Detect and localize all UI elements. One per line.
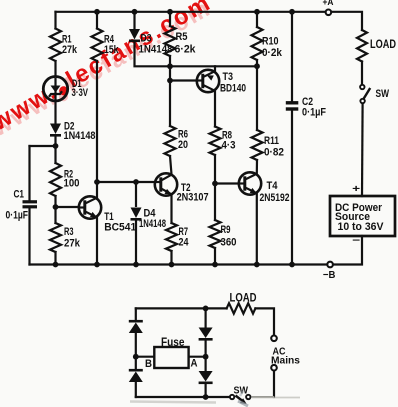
node B junction <box>133 354 139 360</box>
node emitter rail R5 <box>167 63 173 69</box>
node T2 base branch <box>94 179 100 185</box>
terminal AC top <box>271 336 277 342</box>
node bridge top <box>203 306 209 312</box>
resistor LOAD2 <box>227 303 256 313</box>
wire T1 base lead <box>56 206 79 208</box>
resistor R8 <box>210 127 221 156</box>
svg-text:0·82: 0·82 <box>264 147 284 159</box>
svg-text:C1: C1 <box>14 189 25 201</box>
svg-text:100: 100 <box>64 178 80 190</box>
node T4 rail <box>254 262 260 268</box>
svg-text:Fuse: Fuse <box>161 335 185 349</box>
node R9 rail <box>212 262 218 268</box>
wire D6 to rail <box>135 382 137 397</box>
wire R9 bottom <box>214 248 216 265</box>
wire T1 emitter <box>96 217 98 264</box>
svg-text:27k: 27k <box>64 238 81 250</box>
wire +A to load column <box>332 12 362 30</box>
svg-text:R10: R10 <box>262 36 279 48</box>
svg-text:6·2k: 6·2k <box>175 43 197 55</box>
wire D5 to node B <box>135 333 137 370</box>
diode D4 <box>135 182 137 207</box>
wire T3 collector to R8 <box>214 91 216 127</box>
wire T3 base lead <box>170 79 197 81</box>
node C2 top <box>289 9 295 15</box>
svg-text:LOAD: LOAD <box>370 37 396 51</box>
capacitor C2 <box>286 101 299 104</box>
transistor T3 <box>197 70 219 92</box>
wire T4 base lead <box>215 182 239 184</box>
transistor T1 <box>79 196 101 218</box>
transistor T4 <box>239 172 261 194</box>
terminal AC bottom <box>271 365 277 371</box>
svg-text:A: A <box>191 358 198 370</box>
resistor R1 <box>50 29 61 62</box>
resistor R10 <box>252 27 263 60</box>
svg-text:24: 24 <box>179 237 190 249</box>
svg-text:27k: 27k <box>62 44 78 56</box>
svg-text:−: − <box>352 236 360 247</box>
wire R4 top <box>96 12 98 29</box>
wire R1 top <box>54 12 56 29</box>
wire fuse to node A <box>189 356 206 358</box>
node R3 rail <box>53 262 59 268</box>
wire LOAD2 to AC top <box>255 308 274 334</box>
wire junction to C1 rail <box>30 145 56 147</box>
wire R10 top <box>256 12 258 27</box>
svg-text:1N4148: 1N4148 <box>139 218 166 230</box>
wire R11 to T4 collector <box>256 160 258 174</box>
node D2-R2 junction <box>53 143 59 149</box>
wire C1 column <box>28 146 30 200</box>
wire R6 to T2 collector <box>170 156 172 174</box>
switch SW <box>360 85 364 89</box>
fuse F1 <box>154 347 188 368</box>
zener diode D1 <box>43 77 67 101</box>
wire D3 top <box>133 12 135 29</box>
svg-text:0·1µF: 0·1µF <box>302 107 326 119</box>
wire R7 bottom <box>170 251 172 265</box>
wire T2 emitter to R7 <box>170 194 172 223</box>
diode bridge D5 <box>129 323 143 334</box>
wire R4 to T1 collector <box>96 61 98 199</box>
DC power source box <box>330 196 395 236</box>
terminal +A <box>326 10 332 16</box>
svg-text:15k: 15k <box>104 44 119 56</box>
node R5 top <box>167 9 173 15</box>
wire R5-R6 <box>169 56 171 126</box>
node emitter rail R10 <box>254 63 260 69</box>
svg-text:3·3V: 3·3V <box>72 87 89 99</box>
wire D1-D2 <box>54 101 56 124</box>
node R2-R3 junction <box>53 204 59 210</box>
resistor R6 <box>165 126 176 156</box>
svg-text:BC541: BC541 <box>104 222 136 234</box>
node R7 rail <box>169 262 175 268</box>
diode bridge D7 <box>199 328 213 339</box>
watermark www.elecfans.com <box>0 0 220 145</box>
node R4 top <box>94 9 100 15</box>
svg-text:+: + <box>352 184 360 195</box>
svg-text:−B: −B <box>323 269 336 281</box>
svg-text:R9: R9 <box>221 224 231 236</box>
wire D2-junction <box>54 135 56 163</box>
svg-text:R5: R5 <box>176 31 188 43</box>
node D4 rail <box>133 262 139 268</box>
resistor R2 <box>50 163 61 196</box>
wire SW to box <box>361 104 364 196</box>
wire R10 to R11 <box>256 60 258 130</box>
svg-text:1N4148: 1N4148 <box>64 130 96 142</box>
wire top rail <box>56 11 325 13</box>
svg-text:SW: SW <box>376 88 390 100</box>
wire D3 bottom to emitter rail <box>135 41 258 67</box>
svg-text:R11: R11 <box>264 135 279 147</box>
node D3 top <box>132 9 138 15</box>
wire C2 column top <box>291 12 293 101</box>
wire R3 bottom <box>54 252 56 265</box>
node T3 base branch <box>167 78 173 84</box>
diode bridge D8 <box>199 371 213 382</box>
svg-text:R3: R3 <box>64 226 74 238</box>
node D4 top <box>133 179 139 185</box>
wire rail to SW2 <box>136 396 229 398</box>
wire R5 top <box>169 12 171 26</box>
wire D8 to rail <box>205 383 207 397</box>
svg-text:LOAD: LOAD <box>230 292 257 304</box>
diode bridge D6 <box>129 372 143 383</box>
diode D2 <box>50 124 61 135</box>
resistor R5 <box>165 26 176 56</box>
wire D4 bottom <box>135 219 137 264</box>
resistor R3 <box>50 223 61 252</box>
wire base rail to T2 <box>97 181 155 183</box>
wire AC bottom to rail <box>273 371 275 397</box>
svg-text:2N5192: 2N5192 <box>260 192 290 204</box>
resistor R11 <box>252 130 263 160</box>
svg-text:0·2k: 0·2k <box>262 47 283 59</box>
node A junction <box>203 354 209 360</box>
node T4 base junction <box>212 181 218 187</box>
node C2 rail <box>289 262 295 268</box>
resistor LOAD <box>357 30 367 61</box>
wire bottom rail <box>30 263 327 265</box>
svg-text:10 to 36V: 10 to 36V <box>338 221 385 233</box>
node bridge bottom <box>203 394 209 400</box>
wire bridge mid top <box>205 308 207 327</box>
svg-text:0·1µF: 0·1µF <box>6 209 29 221</box>
wire D7 to node A <box>205 339 207 370</box>
svg-text:4·3: 4·3 <box>222 140 236 152</box>
resistor R7 <box>166 223 177 251</box>
transistor T2 <box>155 173 177 195</box>
capacitor C1 <box>23 200 38 203</box>
wire T3 emitter <box>214 66 216 71</box>
wire C2 column bottom <box>291 111 293 265</box>
resistor R4 <box>92 29 103 62</box>
node R10 top <box>254 9 260 15</box>
scan smudge under bridge <box>130 402 216 403</box>
svg-text:2N3107: 2N3107 <box>177 192 209 204</box>
svg-text:360: 360 <box>221 237 237 249</box>
svg-text:B: B <box>145 358 152 370</box>
svg-text:T4: T4 <box>267 180 279 192</box>
wire T4 emitter <box>256 194 258 265</box>
node T1 emitter rail <box>94 262 100 268</box>
wire bridge top rail <box>136 307 227 309</box>
svg-text:+A: +A <box>323 0 334 8</box>
wire LOAD to SW <box>361 62 363 85</box>
wire R1-D1 <box>54 61 56 77</box>
svg-text:BD140: BD140 <box>220 83 246 95</box>
resistor R9 <box>210 220 221 248</box>
wire box to bottom rail <box>334 236 362 265</box>
wire bridge left top <box>135 308 137 321</box>
switch SW2 <box>246 395 250 399</box>
svg-text:20: 20 <box>178 139 188 151</box>
wire R8 to base junction <box>214 155 216 220</box>
terminal -B <box>327 262 333 268</box>
wire R2-R3 <box>54 196 56 223</box>
wire node B to fuse <box>136 356 155 358</box>
diode D3 <box>129 29 140 40</box>
svg-text:T3: T3 <box>223 71 234 83</box>
